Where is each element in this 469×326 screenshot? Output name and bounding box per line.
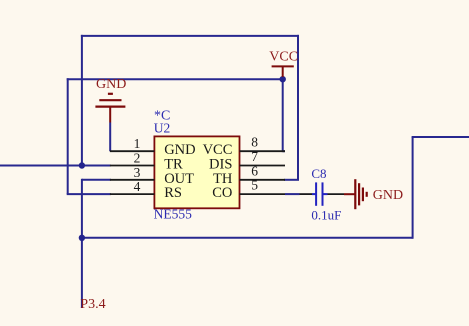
- svg-text:VCC: VCC: [269, 49, 298, 64]
- svg-text:NE555: NE555: [154, 206, 192, 221]
- capacitor C8: [300, 166, 356, 223]
- pin 8 VCC: [203, 135, 285, 159]
- svg-text:CO: CO: [212, 185, 232, 201]
- wire: pin6 TH connection segment: [284, 179, 299, 181]
- wire: pin8 corner segment: [283, 150, 285, 152]
- svg-text:6: 6: [251, 163, 258, 178]
- wire: VCC drop to pin8: [282, 79, 284, 152]
- wire: OUT pin3 segment: [82, 179, 111, 181]
- wire: stub down to P3.4 label: [81, 238, 83, 308]
- svg-text:GND: GND: [373, 188, 403, 203]
- svg-text:5: 5: [251, 178, 258, 193]
- wire: left edge to TR junction: [0, 165, 111, 167]
- svg-text:GND: GND: [96, 77, 126, 92]
- pin 5 CO: [212, 178, 285, 202]
- wire: top horizontal TR/TH net: [81, 35, 299, 37]
- svg-text:4: 4: [134, 179, 141, 194]
- op IC U2 NE555 body: [154, 109, 240, 222]
- pin 3 OUT: [110, 165, 194, 187]
- pin 6 TH: [213, 163, 285, 187]
- pin 4 RS: [110, 179, 182, 201]
- ground GND (right sideways earth): [355, 179, 403, 209]
- wire: right vertical of TR/TH net: [297, 35, 299, 180]
- svg-text:P3.4: P3.4: [80, 297, 105, 312]
- power VCC: [269, 49, 298, 77]
- wire: GND symbol to pin1: [109, 123, 111, 152]
- svg-text:0.1uF: 0.1uF: [311, 207, 341, 222]
- wire: OUT vertical down: [81, 179, 83, 238]
- svg-text:C8: C8: [311, 166, 326, 181]
- svg-text:2: 2: [134, 151, 141, 166]
- svg-text:RS: RS: [164, 185, 182, 201]
- pin 7 DIS: [209, 149, 285, 173]
- svg-text:U2: U2: [154, 120, 171, 135]
- pin 1 GND: [110, 136, 196, 158]
- wire: left vertical of TR/TH net: [81, 35, 83, 166]
- pin 2 TR: [110, 151, 183, 173]
- ground GND (left earth symbol): [95, 77, 126, 123]
- wire: exit to right edge: [412, 136, 469, 138]
- wire: VCC left vertical down to RS: [67, 78, 69, 194]
- svg-text:7: 7: [251, 149, 258, 164]
- wire: pin5 to C8: [285, 193, 300, 195]
- wire: OUT bottom horizontal: [82, 237, 413, 239]
- wire: RS pin4 segment: [67, 193, 111, 195]
- svg-text:3: 3: [134, 165, 141, 180]
- wire: VCC horizontal (RS tie): [67, 78, 283, 80]
- node: OUT junction dot: [79, 235, 85, 241]
- svg-text:8: 8: [251, 135, 258, 150]
- svg-text:1: 1: [134, 136, 141, 151]
- wire: right riser: [412, 137, 414, 239]
- node: TR junction dot: [79, 162, 85, 168]
- node: VCC junction dot: [280, 76, 286, 82]
